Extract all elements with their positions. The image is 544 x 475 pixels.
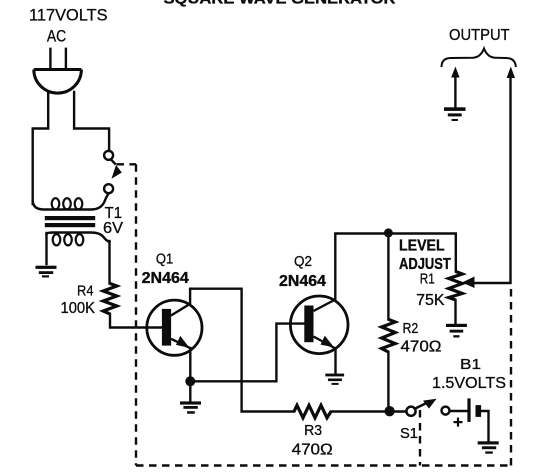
svg-text:117VOLTS: 117VOLTS bbox=[29, 6, 108, 25]
svg-text:SQUARE WAVE GENERATOR: SQUARE WAVE GENERATOR bbox=[164, 0, 396, 8]
svg-text:2N464: 2N464 bbox=[279, 273, 326, 290]
svg-text:R2: R2 bbox=[403, 320, 419, 337]
svg-text:LEVEL: LEVEL bbox=[399, 237, 445, 254]
svg-text:Q2: Q2 bbox=[294, 253, 312, 270]
svg-text:OUTPUT: OUTPUT bbox=[449, 27, 510, 44]
svg-text:R1: R1 bbox=[420, 271, 435, 288]
svg-text:R3: R3 bbox=[304, 422, 322, 439]
svg-text:470Ω: 470Ω bbox=[401, 339, 442, 356]
svg-text:2N464: 2N464 bbox=[142, 270, 190, 287]
svg-text:B1: B1 bbox=[460, 356, 481, 373]
svg-text:100K: 100K bbox=[61, 300, 96, 317]
svg-text:S1: S1 bbox=[400, 425, 418, 442]
svg-text:R4: R4 bbox=[77, 283, 94, 300]
svg-text:Q1: Q1 bbox=[156, 251, 173, 268]
svg-text:AC: AC bbox=[47, 26, 66, 45]
svg-text:75K: 75K bbox=[416, 292, 445, 309]
svg-text:6V: 6V bbox=[103, 220, 123, 237]
svg-text:1.5VOLTS: 1.5VOLTS bbox=[432, 375, 506, 392]
svg-text:470Ω: 470Ω bbox=[292, 442, 333, 459]
